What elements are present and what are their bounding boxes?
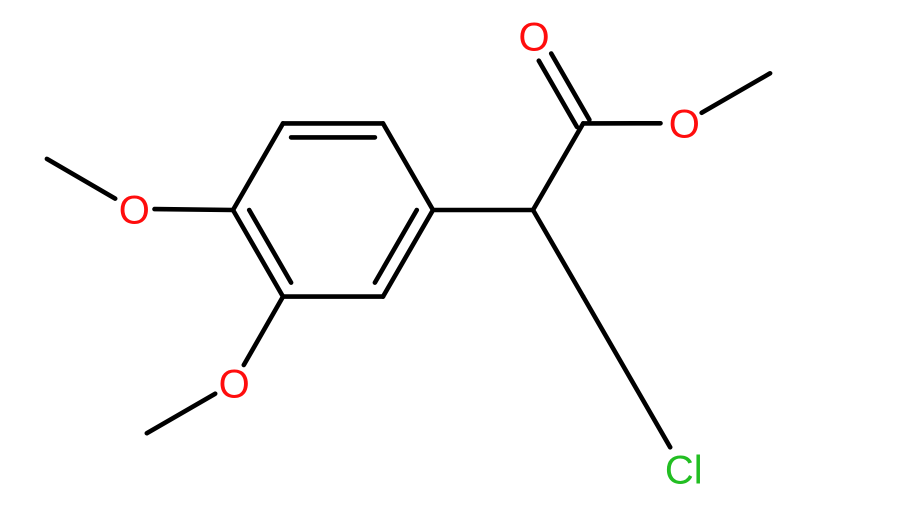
carbonyl double bond line B xyxy=(539,61,577,127)
carbonyl double bond line A xyxy=(551,54,589,120)
svg-text:Cl: Cl xyxy=(665,449,703,493)
aromatic inner line top xyxy=(291,135,375,140)
wire: ester O to methyl CH3c xyxy=(702,73,770,113)
aromatic inner line lower-left xyxy=(249,210,291,283)
ring edge C2-C1 xyxy=(383,123,433,210)
wire: C9 via C10 to Cl xyxy=(583,297,670,448)
wire: O4 to ring C4 xyxy=(155,207,234,212)
wire: ipso C1 to C7 xyxy=(433,208,533,213)
ring edge C6-C5 xyxy=(283,294,383,299)
svg-text:O: O xyxy=(518,16,549,60)
svg-text:O: O xyxy=(119,188,150,232)
ring edge C5-C4 xyxy=(233,210,283,297)
ring edge C4-C3 xyxy=(233,123,283,210)
wire: C7 to carbonyl C8 xyxy=(533,123,583,210)
aromatic inner line lower-right xyxy=(375,210,417,283)
ring edge C1-C6 xyxy=(383,210,433,297)
svg-text:O: O xyxy=(669,103,700,147)
svg-text:O: O xyxy=(219,363,250,407)
wire: O5 to methyl CH3b xyxy=(147,394,215,434)
wire: C5 to O5 xyxy=(244,297,283,365)
wire: C8 to ester O xyxy=(583,121,660,126)
ring edge C3-C2 xyxy=(283,121,383,126)
wire: C7 to C9 xyxy=(533,210,583,297)
wire: methyl CH3a to O4 xyxy=(47,159,115,199)
